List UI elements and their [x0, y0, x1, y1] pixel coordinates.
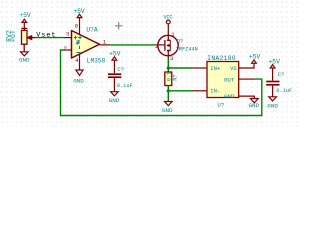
gate bar — [164, 40, 166, 51]
V- pin stem — [79, 54, 81, 70]
current sense amp U? INA2180 — [193, 55, 255, 109]
op-amp U?A LM358 — [64, 18, 111, 70]
cursor crosshair — [115, 22, 123, 30]
svg-text:0.1: 0.1 — [166, 72, 172, 81]
svg-text:U?A: U?A — [86, 26, 97, 33]
capacitor C? (LM358 bypass) — [108, 74, 121, 92]
svg-text:GND: GND — [248, 102, 259, 109]
gate stub — [155, 44, 165, 46]
V+ pin stem — [79, 18, 81, 35]
svg-text:2: 2 — [155, 43, 158, 50]
op-amp body — [72, 31, 100, 59]
svg-text:+5V: +5V — [19, 12, 31, 19]
junction B — [167, 89, 170, 92]
V- marker — [79, 46, 81, 49]
svg-text:4: 4 — [75, 58, 78, 64]
transistor Q? IRFZ44N — [155, 24, 198, 62]
resistor R? shunt — [165, 72, 179, 86]
svg-text:3: 3 — [66, 31, 69, 38]
source stem — [167, 51, 169, 59]
pin 1 stub — [100, 44, 111, 46]
ground (shunt) — [165, 102, 173, 106]
wire MOSFET source to junction — [167, 58, 169, 68]
potentiometer RV? POT — [22, 30, 36, 52]
svg-text:R?: R? — [173, 74, 179, 80]
svg-text:IN+: IN+ — [210, 65, 221, 72]
svg-text:GND: GND — [224, 93, 235, 100]
svg-text:C?: C? — [278, 71, 285, 78]
ground (pot) — [21, 52, 29, 56]
svg-text:8: 8 — [75, 22, 78, 29]
power VCC (MOSFET drain) — [163, 15, 172, 24]
svg-text:VS: VS — [230, 65, 237, 72]
power +5V (pot) — [19, 12, 31, 30]
pin OUT stub — [239, 78, 255, 80]
wire Vset (pot wiper to op-amp +) — [35, 37, 65, 39]
wire shunt to junction B — [167, 86, 169, 91]
in- marker — [76, 41, 79, 43]
channel connector — [169, 40, 171, 50]
V+ marker — [78, 36, 81, 39]
junction A — [167, 66, 170, 69]
svg-text:+5V: +5V — [269, 58, 281, 65]
svg-text:INA2180: INA2180 — [207, 55, 236, 62]
pin VS stub — [239, 67, 255, 69]
pin GND stub — [239, 96, 255, 98]
drain stem — [167, 24, 169, 40]
pin 3 stub — [65, 37, 72, 39]
body arrow — [166, 44, 169, 47]
svg-text:OUT: OUT — [224, 77, 235, 84]
svg-text:2: 2 — [64, 45, 67, 52]
mosfet circle — [158, 35, 178, 55]
svg-text:LM358: LM358 — [87, 57, 106, 64]
power +5V (bypass cap C1) — [109, 51, 121, 74]
ground (cap C2) — [269, 97, 277, 101]
svg-text:0.1uF: 0.1uF — [276, 88, 292, 94]
svg-text:GND: GND — [267, 103, 278, 110]
ground (cap C1) — [111, 92, 119, 96]
capacitor C? (INA bypass) — [266, 82, 279, 97]
svg-text:IRFZ44N: IRFZ44N — [176, 46, 198, 52]
svg-text:POT: POT — [10, 30, 17, 42]
ground (op-amp V-) — [76, 70, 83, 75]
pin IN- stub — [193, 90, 208, 92]
svg-text:C?: C? — [117, 66, 124, 73]
power +5V (op-amp V+) — [73, 8, 85, 17]
wire junction B to IN- — [168, 90, 192, 92]
IC body — [207, 62, 239, 98]
svg-text:U?: U? — [217, 101, 224, 108]
ground (INA GND) — [250, 99, 258, 103]
svg-text:Q?: Q? — [177, 37, 184, 44]
svg-text:GND: GND — [109, 97, 120, 104]
svg-text:3: 3 — [170, 55, 173, 62]
svg-text:+5V: +5V — [249, 54, 261, 61]
svg-text:GND: GND — [19, 57, 30, 64]
wire OUT feedback loop — [61, 50, 262, 116]
svg-text:GND: GND — [73, 78, 84, 85]
svg-text:0.1uF: 0.1uF — [117, 83, 133, 89]
wire op-amp out to MOSFET gate — [110, 44, 155, 46]
svg-text:GND: GND — [162, 107, 173, 114]
wire junction B to ground — [167, 91, 169, 102]
channel stripes — [167, 40, 170, 50]
power +5V (INA VS) — [249, 54, 261, 69]
pin 2 stub — [65, 49, 72, 51]
in+ marker — [74, 36, 77, 39]
power +5V (INA bypass cap) — [269, 58, 281, 80]
pin IN+ stub — [193, 67, 208, 69]
svg-text:IN-: IN- — [210, 88, 220, 95]
wire junction A to shunt — [167, 68, 169, 72]
wire junction A to IN+ — [168, 67, 192, 69]
